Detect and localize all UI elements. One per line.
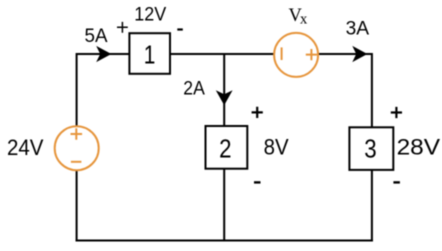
polarity plus inside Vx [306,49,317,60]
element 2 (box) [206,126,248,169]
element 1 (box) [129,33,170,74]
wire from box3 bottom to bottom rail [371,169,373,241]
svg-text:24V: 24V [7,135,44,160]
polarity minus inside Vx (rotated, vertical bar) [281,47,283,60]
wire top-left horizontal with left corner down [77,54,130,127]
wire from Vx to top-right corner down to box 3 [317,54,372,128]
polarity plus inside 24V source [71,128,83,140]
voltage source Vx (circle) [274,33,318,77]
current arrow 5A [96,46,111,62]
svg-text:5A: 5A [85,26,108,47]
voltage source 24V (circle) [55,126,99,170]
polarity plus (element 1 left) [117,22,128,33]
wire bottom rail [76,240,373,242]
wire from box2 bottom to bottom rail [223,168,225,242]
svg-text:12V: 12V [134,4,166,25]
svg-text:x: x [300,11,308,27]
svg-text:3A: 3A [346,18,370,39]
polarity minus (element 3 bottom) [393,181,400,183]
element 3 (box) [349,127,393,170]
svg-text:8V: 8V [264,135,289,160]
svg-text:2: 2 [219,133,231,163]
wire left vertical below 24V source [76,170,78,242]
polarity minus (element 1 right) [177,28,183,30]
current arrow 3A [352,46,367,62]
svg-text:28V: 28V [397,134,441,159]
polarity plus (element 2 top) [252,107,263,118]
polarity plus (element 3 top) [391,107,402,118]
svg-text:1: 1 [144,39,156,69]
polarity minus (element 2 bottom) [254,181,261,183]
current arrow 2A [216,90,233,105]
polarity minus inside 24V source [71,161,82,163]
wire from box1 to Vx source [170,53,275,55]
svg-text:3: 3 [364,133,376,163]
wire middle vertical down to box 2 [223,53,225,126]
svg-text:2A: 2A [183,79,205,100]
